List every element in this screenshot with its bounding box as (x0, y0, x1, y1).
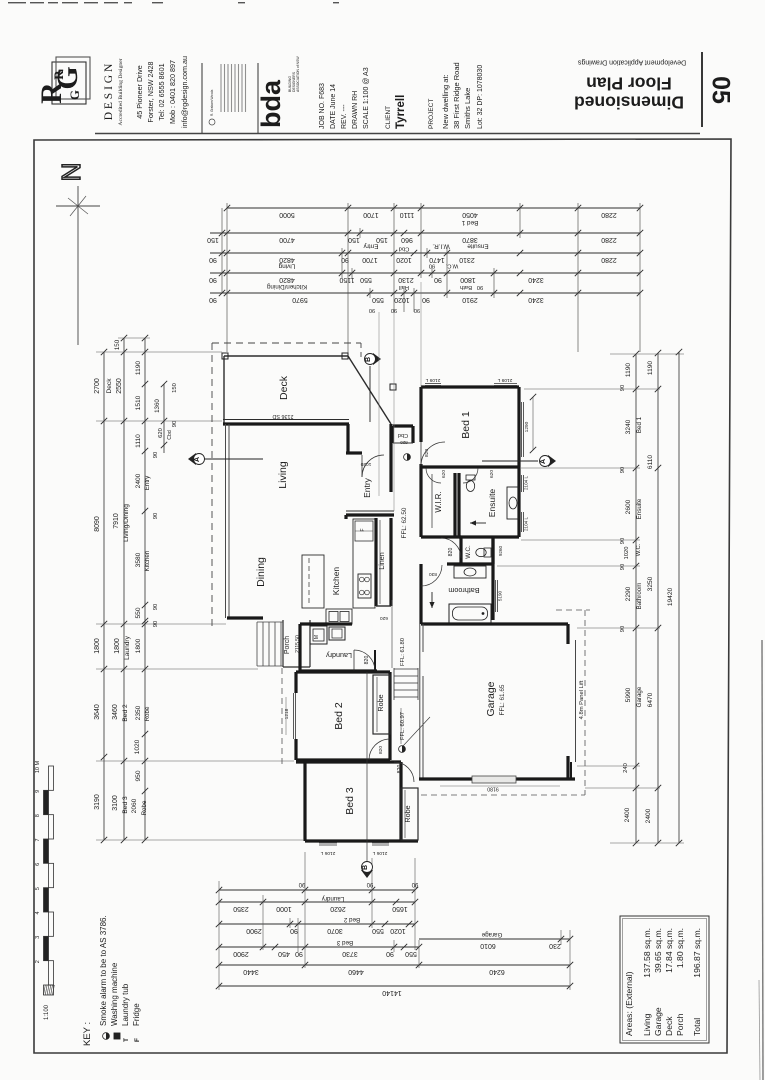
svg-text:Entry: Entry (362, 477, 372, 498)
svg-text:2104 L: 2104 L (524, 476, 529, 490)
svg-text:5990: 5990 (625, 687, 632, 702)
top dimension row 2 (150/4700/960/3870/2280) (207, 230, 643, 250)
svg-text:Bed 2: Bed 2 (122, 704, 129, 722)
svg-text:Robe: Robe (376, 694, 385, 711)
svg-text:550: 550 (405, 950, 417, 957)
svg-text:Dimensioned: Dimensioned (574, 93, 684, 113)
right dimension chain lines (636, 352, 679, 843)
section marker B bottom (361, 672, 373, 878)
svg-text:1020: 1020 (360, 461, 371, 467)
svg-text:Laundry tub: Laundry tub (121, 983, 130, 1026)
svg-text:REV. ---: REV. --- (341, 104, 348, 129)
svg-text:Bathroom: Bathroom (448, 586, 479, 595)
svg-text:Bed 1: Bed 1 (461, 219, 478, 226)
svg-text:Laundry: Laundry (124, 635, 131, 660)
svg-text:Laundry: Laundry (326, 651, 352, 660)
bathroom walls (421, 537, 493, 624)
right chain dimension texts (620, 361, 674, 824)
hall stairs (392, 600, 418, 700)
entry door arc 1020 (360, 455, 384, 477)
svg-text:KEY :: KEY : (82, 1022, 93, 1046)
svg-text:Dining: Dining (255, 557, 267, 587)
svg-text:Bath: Bath (460, 284, 472, 290)
svg-text:90: 90 (369, 307, 375, 313)
svg-text:8: 8 (35, 814, 41, 817)
living west wall (226, 424, 230, 618)
garage door south 9180 (440, 776, 560, 792)
DESIGN wordmark (103, 58, 124, 125)
svg-text:5190: 5190 (498, 590, 503, 601)
svg-text:3240: 3240 (625, 419, 632, 434)
bottom dimension row bed3 2900/3730 (216, 939, 422, 957)
bed1 door arc 820 (421, 442, 445, 466)
svg-text:820: 820 (448, 548, 454, 557)
garage south wall (419, 777, 575, 780)
svg-text:830: 830 (429, 571, 437, 577)
laundry walls (300, 624, 377, 671)
svg-text:6: 6 (35, 863, 41, 866)
svg-text:W.I.R.: W.I.R. (434, 491, 443, 512)
svg-text:550: 550 (372, 927, 384, 934)
svg-text:1190: 1190 (625, 363, 632, 378)
svg-text:Cbd: Cbd (398, 432, 408, 438)
bed3 east wall (399, 762, 402, 841)
svg-text:196.87 sq.m.: 196.87 sq.m. (692, 928, 702, 978)
svg-text:620: 620 (441, 470, 447, 478)
left chain dimension texts (94, 339, 178, 815)
svg-text:Porch: Porch (675, 1013, 685, 1036)
svg-text:FFL: 62.50: FFL: 62.50 (401, 507, 408, 538)
svg-text:2106 L: 2106 L (372, 850, 387, 856)
svg-text:A: A (540, 459, 547, 464)
washing machine symbol (310, 626, 327, 644)
svg-text:Smoke alarm to be to AS 3786.: Smoke alarm to be to AS 3786. (99, 915, 108, 1026)
svg-text:2900: 2900 (233, 950, 249, 957)
svg-text:D E S I G N: D E S I G N (103, 63, 115, 120)
bed1 east wall (517, 387, 520, 467)
svg-text:4050: 4050 (462, 211, 478, 218)
svg-text:2600: 2600 (625, 499, 632, 514)
svg-text:Deck: Deck (664, 1016, 674, 1036)
svg-text:960: 960 (401, 236, 413, 243)
key legend (82, 1022, 93, 1046)
svg-text:820: 820 (424, 449, 430, 457)
svg-text:2280: 2280 (601, 256, 617, 263)
svg-text:45 Pioneer Drive: 45 Pioneer Drive (135, 65, 144, 119)
svg-text:Development Application Draw: Development Application Drawings (577, 59, 686, 66)
svg-text:150: 150 (376, 236, 388, 243)
bed2 west window 1218 (284, 693, 296, 739)
section marker A right (482, 455, 556, 467)
svg-text:2700: 2700 (94, 378, 101, 394)
svg-text:W.C.: W.C. (636, 543, 642, 556)
Garage room label (485, 681, 506, 716)
svg-text:1020: 1020 (394, 296, 410, 303)
svg-text:Bed 3: Bed 3 (336, 939, 353, 946)
svg-text:7: 7 (35, 838, 41, 841)
svg-text:550: 550 (360, 276, 372, 283)
bed1 window 2109 L left (425, 377, 441, 386)
svg-text:1800: 1800 (135, 638, 142, 653)
right chain witness lines (497, 354, 684, 843)
top dimension row 4 (4820/1150/550/2130/1800/3240) (209, 270, 643, 290)
svg-text:2280: 2280 (601, 211, 617, 218)
svg-text:620: 620 (489, 470, 495, 478)
svg-text:550: 550 (372, 296, 384, 303)
svg-text:90: 90 (209, 276, 217, 283)
porch outline and steps (257, 620, 310, 667)
long witness lines through plan (379, 282, 421, 511)
title block divider 1 (201, 63, 203, 133)
wir walls (421, 468, 461, 537)
svg-text:90: 90 (153, 513, 159, 519)
svg-text:Smiths Lake: Smiths Lake (463, 88, 472, 129)
svg-text:FFL: 61.65: FFL: 61.65 (499, 684, 506, 715)
svg-text:9180: 9180 (487, 786, 499, 792)
deck post top-right (342, 353, 348, 359)
svg-text:150: 150 (172, 383, 178, 393)
svg-text:R: R (51, 70, 66, 80)
bottom dimension row bed2 2900/3070 (216, 916, 418, 934)
svg-text:1110: 1110 (400, 211, 415, 218)
svg-text:New dwelling at:: New dwelling at: (441, 74, 450, 129)
wc walls (461, 537, 493, 564)
svg-text:5970: 5970 (292, 296, 308, 303)
key smoke alarm (99, 915, 109, 1039)
svg-text:10 M: 10 M (35, 760, 41, 773)
svg-text:90: 90 (153, 604, 159, 610)
bed1 window 2109 L right (494, 377, 517, 386)
hall FFL 60.97 (400, 708, 406, 744)
svg-text:SCALE 1:100 @ A3: SCALE 1:100 @ A3 (363, 67, 370, 129)
svg-text:90: 90 (429, 263, 435, 269)
bed2 robe (373, 675, 390, 734)
svg-text:820: 820 (378, 746, 384, 754)
designer address block (135, 56, 189, 128)
svg-text:90: 90 (434, 276, 442, 283)
right chain ticks (633, 349, 682, 846)
key washing machine (110, 962, 120, 1039)
svg-text:9260: 9260 (498, 545, 503, 556)
ensuite walls (459, 467, 519, 537)
svg-text:19420: 19420 (667, 588, 674, 607)
svg-text:2910: 2910 (462, 296, 478, 303)
svg-text:3440: 3440 (243, 968, 259, 975)
bed2 south wall (296, 758, 390, 761)
section marker B top (365, 353, 382, 422)
svg-text:1000: 1000 (276, 905, 292, 912)
copyright disclaimer text (209, 64, 246, 125)
svg-text:90: 90 (620, 385, 626, 391)
deck post at bed1 corner (390, 384, 396, 390)
svg-text:820: 820 (364, 656, 370, 665)
project block (428, 62, 484, 129)
svg-text:2350: 2350 (135, 705, 142, 720)
svg-text:M: M (314, 635, 320, 639)
svg-text:5: 5 (35, 887, 41, 890)
svg-text:CLIENT: CLIENT (385, 106, 392, 129)
svg-text:05: 05 (707, 76, 735, 104)
bed1 east window 1290 (522, 394, 537, 457)
areas table (620, 916, 709, 1043)
laundry tub symbol (329, 627, 345, 640)
bottom chains witness lines (219, 852, 570, 990)
svg-text:Kitchen: Kitchen (144, 550, 151, 571)
svg-text:R. Graham Woods: R. Graham Woods (210, 89, 214, 116)
svg-text:820: 820 (397, 765, 403, 774)
garage north wall (421, 622, 568, 625)
svg-text:Bathroom: Bathroom (636, 583, 643, 610)
svg-text:Forster, NSW 2428: Forster, NSW 2428 (146, 61, 155, 122)
svg-text:1020: 1020 (624, 547, 630, 560)
svg-text:1650: 1650 (392, 905, 408, 912)
svg-text:ASSOCIATION of NSW: ASSOCIATION of NSW (296, 56, 300, 92)
bed1 west wall (419, 387, 422, 468)
svg-text:N: N (56, 163, 86, 182)
svg-text:38 First Ridge Road: 38 First Ridge Road (452, 62, 461, 129)
svg-text:Bed 1: Bed 1 (636, 416, 643, 433)
svg-text:17.84 sq.m.: 17.84 sq.m. (664, 928, 674, 973)
svg-text:90: 90 (295, 950, 303, 957)
bottom dimension row 3440/4460/6240 (216, 962, 573, 975)
svg-text:FFL: 61.80: FFL: 61.80 (400, 638, 406, 666)
svg-text:2106 L: 2106 L (320, 850, 335, 856)
svg-text:2400: 2400 (624, 807, 631, 822)
svg-text:4.8m Panel Lift: 4.8m Panel Lift (579, 680, 585, 719)
svg-text:Deck: Deck (278, 375, 290, 400)
ensuite toilet (466, 475, 475, 492)
svg-text:1800: 1800 (114, 638, 121, 654)
bed2 door arc 820 (369, 739, 390, 760)
wir door arc 620 (426, 468, 447, 483)
svg-text:2109 L: 2109 L (425, 377, 440, 383)
bathroom vanity (454, 566, 486, 578)
svg-text:2900: 2900 (246, 927, 262, 934)
svg-text:4: 4 (35, 911, 41, 914)
svg-text:Floor Plan: Floor Plan (586, 74, 672, 94)
svg-text:90: 90 (477, 284, 483, 290)
svg-text:1190: 1190 (135, 361, 142, 376)
svg-text:3640: 3640 (94, 704, 101, 720)
svg-text:3460: 3460 (112, 704, 119, 720)
top dimension sub 90 labels (369, 307, 420, 313)
svg-text:Living: Living (278, 263, 295, 270)
svg-text:950: 950 (135, 770, 142, 781)
svg-text:3580: 3580 (135, 552, 142, 567)
bed3 south wall (305, 839, 418, 842)
svg-text:Kitchen: Kitchen (331, 567, 341, 596)
svg-text:9: 9 (35, 790, 41, 793)
svg-text:620: 620 (380, 615, 388, 621)
svg-text:Fridge: Fridge (132, 1003, 141, 1026)
stove cooktop symbol (358, 574, 371, 598)
svg-text:A: A (194, 457, 201, 462)
svg-text:2350: 2350 (233, 905, 249, 912)
top dimension row 1 (5000/1700/1110/4050/2280) (224, 205, 643, 226)
svg-text:2: 2 (35, 960, 41, 963)
wc toilet (476, 548, 491, 557)
kitchen south wall (300, 622, 352, 625)
svg-text:8090: 8090 (94, 516, 101, 532)
living north wall (223, 420, 349, 425)
title block strip (95, 133, 700, 135)
svg-text:1.80 sq.m.: 1.80 sq.m. (675, 928, 685, 968)
svg-text:Garage: Garage (636, 686, 643, 707)
left chain witness lines to plan (96, 338, 303, 840)
wc door arc 820 (441, 538, 461, 558)
dining south wall (227, 616, 263, 619)
sheet title (574, 59, 686, 113)
svg-text:137.58 sq.m.: 137.58 sq.m. (642, 928, 652, 978)
svg-text:3190: 3190 (94, 794, 101, 810)
svg-text:Kitchen/Dining: Kitchen/Dining (266, 283, 306, 290)
garage east wall (568, 624, 571, 780)
svg-text:3730: 3730 (342, 950, 358, 957)
bottom dimension row garage 6010/230 (419, 931, 573, 949)
title block divider 2 (257, 63, 259, 133)
svg-text:3070: 3070 (327, 927, 343, 934)
svg-text:90: 90 (422, 296, 430, 303)
svg-text:Robe: Robe (144, 706, 151, 721)
svg-text:Cbd: Cbd (399, 246, 410, 252)
svg-text:bda: bda (256, 79, 286, 128)
bed3 south window left 2106 L (319, 843, 337, 856)
svg-text:90: 90 (172, 421, 178, 427)
smoke alarm entry (404, 454, 411, 461)
svg-text:1110: 1110 (135, 434, 142, 448)
svg-text:Tel: 02 6555 8601: Tel: 02 6555 8601 (157, 63, 166, 120)
svg-text:Bed 3: Bed 3 (122, 796, 129, 814)
svg-text:Garage: Garage (653, 1007, 663, 1036)
svg-text:820: 820 (400, 440, 408, 445)
svg-text:550: 550 (135, 607, 142, 618)
svg-text:90: 90 (414, 307, 420, 313)
svg-text:1020: 1020 (396, 256, 412, 263)
svg-text:1800: 1800 (460, 276, 476, 283)
bed3 north wall (296, 760, 401, 763)
sheet number divider (701, 52, 703, 127)
laundry door arc (354, 650, 375, 671)
svg-text:T: T (123, 1038, 130, 1042)
garage west wall (420, 624, 423, 779)
bathroom east window 0615 (496, 580, 503, 612)
graphic scale bar (35, 760, 54, 1020)
svg-text:2400: 2400 (645, 808, 652, 823)
svg-text:90: 90 (620, 564, 626, 570)
smoke alarm hall (399, 717, 430, 752)
svg-text:2109 L: 2109 L (497, 377, 512, 383)
bottom dimension row 2350/1000/2620/1650 (216, 899, 418, 912)
bathroom bath tub (449, 604, 491, 623)
svg-text:Lot: 32 DP: 1078030: Lot: 32 DP: 1078030 (477, 65, 484, 129)
svg-text:2400: 2400 (135, 473, 142, 488)
svg-text:W.C.: W.C. (465, 545, 472, 559)
svg-text:90: 90 (386, 950, 394, 957)
svg-text:1:100: 1:100 (44, 1004, 50, 1020)
svg-text:Bed 2: Bed 2 (333, 702, 345, 730)
svg-text:4700: 4700 (279, 236, 295, 243)
bottom dimension row 14140 (216, 983, 573, 996)
bed2 east wall (388, 672, 391, 760)
svg-text:150: 150 (348, 236, 360, 243)
svg-text:2280: 2280 (601, 236, 617, 243)
svg-text:Tyrrell: Tyrrell (395, 95, 407, 129)
svg-text:14140: 14140 (382, 989, 402, 996)
top dimension witness lines (222, 203, 640, 356)
ensuite shower arrow (470, 520, 486, 525)
svg-text:Ensuite: Ensuite (467, 243, 489, 250)
north arrow (56, 163, 100, 345)
svg-text:Entry: Entry (363, 243, 379, 250)
svg-text:620: 620 (158, 428, 164, 438)
svg-text:1020: 1020 (390, 927, 406, 934)
svg-text:DRAWN RH: DRAWN RH (352, 91, 359, 129)
svg-text:Laundry: Laundry (321, 895, 344, 902)
bathroom door arc 830 (421, 565, 442, 586)
top dimension row 5 (5970/550/1020/2910/3240) (209, 284, 643, 303)
svg-text:1470: 1470 (429, 256, 445, 263)
deck post top-left (222, 353, 228, 359)
svg-text:Ensuite: Ensuite (636, 498, 643, 519)
ensuite door arc 620 (463, 468, 495, 483)
svg-text:90: 90 (290, 927, 298, 934)
svg-text:4820: 4820 (279, 256, 295, 263)
svg-text:Bed 2: Bed 2 (343, 916, 360, 923)
svg-text:Living: Living (277, 461, 289, 489)
svg-text:3240: 3240 (528, 276, 544, 283)
svg-text:90: 90 (411, 881, 418, 887)
bed2 west wall (294, 672, 297, 760)
svg-text:1020: 1020 (134, 739, 141, 754)
svg-text:Living: Living (642, 1013, 652, 1036)
roof overhang dashed outline (212, 343, 590, 795)
svg-text:7910: 7910 (113, 513, 120, 529)
svg-text:Washing machine: Washing machine (110, 962, 119, 1026)
svg-text:1510: 1510 (135, 395, 142, 410)
svg-text:3100: 3100 (112, 795, 119, 811)
svg-text:150: 150 (207, 236, 219, 243)
svg-text:2550: 2550 (116, 378, 123, 394)
svg-text:Entry: Entry (144, 475, 151, 490)
top dimension row 3 (4820/1700/1020/1470/2310/2280) (209, 246, 643, 270)
svg-text:info@rgdesign.com.au: info@rgdesign.com.au (180, 56, 189, 128)
deck outline (224, 356, 391, 424)
svg-text:2130: 2130 (398, 276, 414, 283)
entry walls (346, 424, 391, 492)
linen closet (376, 518, 391, 606)
svg-text:Deck: Deck (106, 378, 113, 394)
svg-text:230: 230 (549, 942, 561, 949)
svg-text:Garage: Garage (481, 931, 502, 938)
key fridge (132, 1003, 141, 1042)
svg-text:3240: 3240 (528, 296, 544, 303)
svg-text:Bed 3: Bed 3 (344, 787, 356, 815)
svg-text:3: 3 (35, 936, 41, 939)
svg-text:Areas: (External): Areas: (External) (624, 971, 634, 1036)
bed1 north wall (421, 385, 519, 388)
svg-text:B: B (365, 357, 372, 362)
scan noise top edge (8, 2, 339, 3)
client block (385, 95, 407, 129)
svg-text:2620: 2620 (330, 905, 346, 912)
svg-text:3870: 3870 (462, 236, 478, 243)
svg-text:Living/Dining: Living/Dining (123, 504, 130, 542)
RG Design logo (35, 57, 90, 104)
svg-text:Porch: Porch (284, 636, 291, 654)
left dimension chain lines (104, 338, 164, 840)
bed3 robe (401, 788, 418, 840)
kitchen island bench (302, 555, 324, 608)
